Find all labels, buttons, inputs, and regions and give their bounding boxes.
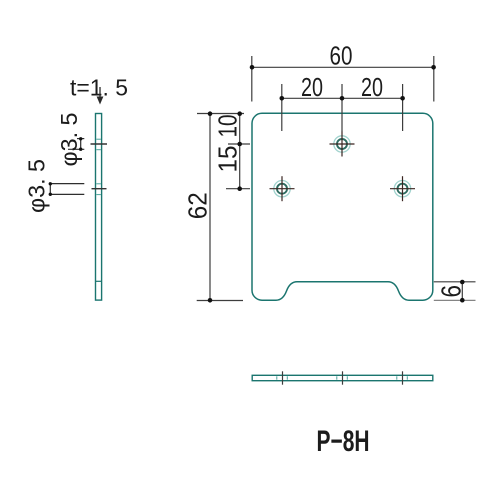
dimension 60 — [250, 56, 436, 102]
svg-text:6: 6 — [435, 285, 466, 298]
svg-text:φ3. 5: φ3. 5 — [56, 113, 82, 167]
svg-text:60: 60 — [330, 42, 353, 70]
dimension phi3.5 lower hole — [49, 182, 85, 196]
svg-text:φ3. 5: φ3. 5 — [24, 159, 50, 213]
dimension 10 / 15 — [226, 111, 250, 191]
bottom view hole center ticks — [283, 371, 403, 384]
side view hole edge dashes — [96, 139, 101, 194]
side view notch edge line — [96, 280, 102, 282]
svg-text:20: 20 — [301, 74, 323, 102]
dimension 6 — [434, 280, 476, 303]
svg-text:15: 15 — [215, 146, 243, 173]
side view hole 1 center line — [91, 143, 108, 145]
dimension 20 20 — [280, 84, 405, 132]
svg-text:20: 20 — [361, 74, 383, 102]
dimension phi3.5 top hole — [68, 137, 84, 151]
hole right — [390, 176, 415, 201]
hole top middle — [330, 132, 355, 157]
svg-text:P−8H: P−8H — [317, 425, 370, 458]
svg-text:10: 10 — [215, 115, 243, 138]
side view plate outline — [96, 114, 102, 301]
bottom view plate outline — [252, 375, 433, 380]
leader arrow for t=1.5 — [97, 87, 104, 105]
front view plate outline — [252, 113, 433, 300]
svg-text:62: 62 — [185, 192, 213, 219]
side view hole 2 center line — [92, 188, 107, 190]
dimension 62 — [197, 111, 244, 302]
bottom view hole edge dashes — [277, 376, 408, 379]
hole left — [270, 176, 295, 201]
